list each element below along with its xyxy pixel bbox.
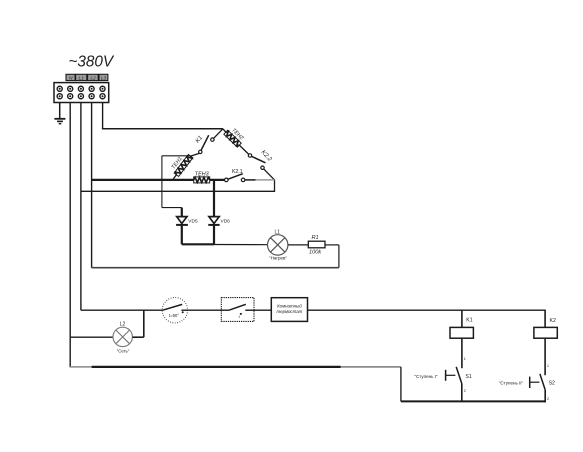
svg-text:L3: L3 [101,76,107,82]
terminal block XT [54,83,109,103]
pushbutton S2 [530,374,555,390]
wire common rail to L1 phase [81,190,275,192]
wire bottom bus [401,400,545,402]
wire apex to TEN2 [223,129,226,132]
switch K2.2 [248,150,273,170]
svg-text:t=90°: t=90° [169,313,179,318]
svg-text:K2.1: K2.1 [232,169,243,175]
svg-text:2: 2 [464,389,466,393]
lamp L2 [113,327,132,346]
svg-text:Комнатный: Комнатный [277,304,302,309]
svg-text:R1: R1 [312,235,319,241]
relay coil K1 [450,318,473,339]
diode VD6 [208,217,230,225]
svg-text:S1: S1 [465,374,471,380]
svg-text:L1: L1 [275,229,281,235]
svg-text:S2: S2 [549,381,555,387]
room thermostat box [271,298,307,322]
wire L2 vertical [91,103,93,268]
wire TEN1 to rail [173,175,177,180]
wire PE to ground [59,103,61,119]
switch K1 [195,135,214,154]
wire L2 lamp branch [70,336,113,338]
heater TEN1 [169,151,193,177]
wire K1 coil to S1 [461,338,463,368]
svg-text:L1: L1 [79,76,85,82]
wire bus step down [400,367,402,402]
wire S1 bottom [461,384,463,402]
wire VD6 anode [213,180,215,217]
wire control line left [81,309,162,311]
wire rail to lamp L1 [214,244,267,246]
wire K2.2 down to corner [264,169,275,180]
svg-text:2: 2 [547,397,549,401]
resistor R1 [308,235,325,256]
svg-text:1: 1 [464,357,466,361]
svg-text:N: N [69,76,73,82]
terminal label L3 [99,74,108,81]
wire L1 vertical [80,103,82,311]
terminal label L2 [88,74,99,81]
wire VD5 left drop [161,156,163,208]
wire corner drop [274,179,276,191]
heater TEN3 [194,172,210,183]
wire L3 vertical [102,103,104,129]
wire K1 coil top [461,310,463,328]
svg-text:"Ступень II": "Ступень II" [499,381,524,386]
lamp L1 [268,235,288,255]
wire K2 coil top [544,310,546,328]
relay coil K2 [534,318,557,338]
terminal label L1 [76,74,87,81]
wire K2.1 to corner gray [256,179,275,181]
wire neutral bus black [92,366,341,368]
svg-text:термостат: термостат [276,309,302,314]
svg-text:"Нагрев": "Нагрев" [269,255,287,260]
wire R1 right [325,244,339,246]
wire control line right [308,309,546,311]
wire VD5 cathode [181,225,183,244]
thermal cutout t=90 [162,298,187,323]
wire loop return [92,267,339,269]
svg-text:t: t [239,314,241,319]
wire L2 lamp to riser [132,336,143,338]
svg-text:K1: K1 [195,135,204,144]
svg-text:~380V: ~380V [68,53,114,70]
svg-text:ТЕН3: ТЕН3 [195,172,209,178]
svg-text:L2: L2 [90,76,96,82]
wire loop right drop [338,245,340,268]
switch K2.1 [225,169,245,182]
wire K1 to TEN1 [191,153,200,156]
svg-text:"Сеть": "Сеть" [117,348,130,353]
wire L3 top rail [102,128,223,130]
heater TEN2 [224,125,246,147]
wire neutral bus gray right [341,366,401,368]
svg-text:K1: K1 [466,318,472,324]
wire VD5 horizontal [162,207,182,209]
wire VD5 anode [181,208,183,217]
wire neutral bus gray left [70,366,91,368]
wire VD5 top tap [162,155,191,157]
terminal label N [66,74,75,81]
pushbutton S1 [446,367,472,384]
svg-text:K2: K2 [550,318,556,324]
thermostat contact box [221,298,254,322]
wire L2 riser [143,310,145,337]
wire L1 to R1 [288,244,308,246]
svg-text:VD6: VD6 [221,219,231,225]
wire TEN2 to K2.2 [239,145,250,155]
svg-text:"Ступень I": "Ступень I" [414,374,437,379]
svg-text:100k: 100k [309,250,322,256]
wire cutout to tbox [181,309,221,311]
wire N vertical [69,103,71,368]
diode VD5 [176,217,198,225]
wire S2 bottom [544,390,546,403]
wire TEN3 to K2.1 [210,179,227,181]
ground [54,119,65,124]
svg-text:L2: L2 [120,321,126,327]
wire K2 coil to S2 [544,338,546,375]
wire diode output rail bold [182,243,214,245]
svg-text:1: 1 [547,364,549,368]
svg-text:VD5: VD5 [188,219,198,225]
wire VD6 cathode [213,225,215,244]
wire K2.1 to corner black [245,179,256,181]
wire apex to K1 contact [212,129,223,140]
wire tbox to thermostat [254,309,271,311]
wire L2 phase rail [92,179,194,181]
